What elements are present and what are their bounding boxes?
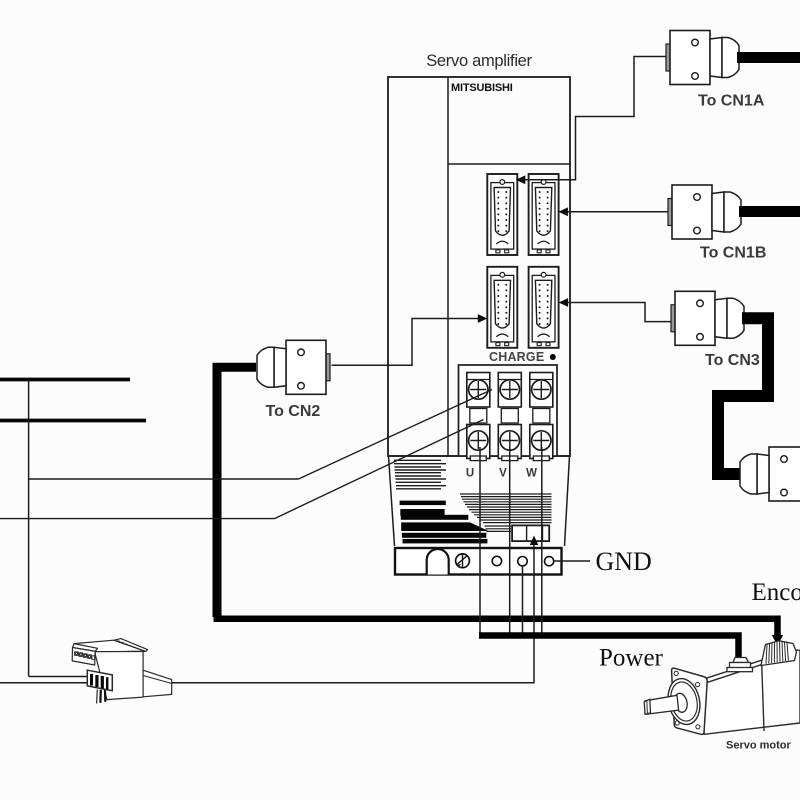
- svg-text:Power: Power: [599, 645, 664, 672]
- heatsink fins right: [460, 494, 552, 531]
- wire to CN2 socket with arrow: [332, 319, 479, 366]
- inner panel divider horizontal: [448, 163, 570, 165]
- plug latch wedge: [143, 670, 172, 697]
- inner panel divider vertical: [447, 77, 449, 456]
- plug pin strip face: [72, 648, 95, 666]
- cable plug To CN1B: [668, 185, 741, 239]
- charge lamp dot: [550, 354, 556, 360]
- supply drop wire: [28, 380, 30, 677]
- flange screw holes: [674, 671, 700, 729]
- motor power entry block: [727, 658, 753, 672]
- motor bearing boss rings: [664, 676, 704, 728]
- motor shaft: [644, 692, 689, 714]
- heatsink top edge lines: [389, 455, 459, 457]
- W phase wire: [541, 447, 543, 636]
- motor encoder connector: [761, 641, 797, 666]
- CN3 cable routed to encoder plug: [718, 318, 768, 474]
- svg-text:V: V: [499, 468, 507, 480]
- pointer diagonal to terminal U bottom: [275, 420, 484, 519]
- plug stub wires: [96, 690, 99, 704]
- mounting flange of amplifier: [395, 548, 562, 575]
- connector CN1A socket on amplifier: [487, 174, 517, 255]
- connector CN3 socket on amplifier: [529, 267, 559, 348]
- svg-text:To CN1A: To CN1A: [698, 93, 765, 110]
- connector CN1B socket on amplifier: [529, 174, 559, 255]
- motor power cable: [479, 636, 739, 660]
- cable plug To CN2 (faces left): [257, 340, 330, 394]
- wire to CN3 socket with arrow: [567, 303, 672, 322]
- motor power cable plug (bottom right, faces left): [740, 447, 800, 501]
- wire to CN1A socket with arrow: [524, 57, 668, 180]
- svg-text:U: U: [466, 468, 474, 480]
- power supply plug (bottom left, 3D): [72, 639, 172, 700]
- mounting notch: [427, 549, 449, 575]
- plug front face: [95, 651, 143, 699]
- ground wire from flange hole: [522, 566, 524, 636]
- connector CN2 socket on amplifier: [487, 267, 517, 348]
- battery/display box on amplifier: [512, 525, 549, 541]
- cable plug To CN3: [671, 291, 744, 345]
- heatsink black bars left: [400, 501, 489, 544]
- CN1A cable: [737, 52, 800, 63]
- thin control wire h2: [0, 518, 275, 520]
- thin control wire h1: [29, 478, 299, 480]
- ground screw symbol: [456, 554, 470, 568]
- wire to CN1B socket with arrow: [567, 211, 668, 213]
- three-phase supply line 2: [0, 419, 146, 423]
- plug pin holes: [75, 652, 95, 660]
- svg-text:CHARGE: CHARGE: [489, 350, 544, 364]
- GND wire: [554, 560, 590, 562]
- svg-text:To CN2: To CN2: [266, 403, 321, 420]
- svg-text:To CN3: To CN3: [705, 352, 760, 369]
- motor flange: [672, 668, 708, 734]
- plug top face: [74, 640, 146, 652]
- terminal block bottom tabs: [470, 456, 549, 461]
- wire into power plug from left edge: [0, 682, 88, 684]
- terminal block TE1: [459, 365, 558, 456]
- flange hole 2: [518, 557, 527, 566]
- servo motor body: [704, 650, 800, 735]
- svg-text:W: W: [526, 468, 537, 480]
- U phase wire: [479, 447, 481, 636]
- svg-text:To CN1B: To CN1B: [700, 245, 766, 262]
- V phase wire: [509, 447, 511, 636]
- amplifier heatsink section outline: [389, 456, 570, 546]
- heatsink fins upper-left: [394, 460, 446, 489]
- encoder cable to motor with arrow: [214, 619, 778, 637]
- three-phase supply line 1: [0, 378, 130, 382]
- svg-text:Servo motor: Servo motor: [726, 740, 792, 752]
- plug pin strip top: [73, 644, 98, 652]
- flange hole 1: [492, 556, 501, 565]
- CN1B cable: [739, 206, 800, 217]
- CN2 cable down and across to motor encoder: [217, 367, 256, 617]
- flange hole 3 (GND): [545, 557, 554, 566]
- pointer diagonal to terminal V: [299, 390, 493, 480]
- plug chamfer edge: [114, 639, 148, 652]
- svg-text:MITSUBISHI: MITSUBISHI: [451, 82, 513, 94]
- svg-text:Servo amplifier: Servo amplifier: [426, 52, 532, 70]
- plug wire slot plate: [87, 670, 112, 691]
- svg-text:GND: GND: [596, 547, 652, 576]
- pointer wire from power plug to battery box: [172, 545, 534, 683]
- svg-text:Encoder: Encoder: [752, 579, 800, 606]
- terminal screws U V W rows: [467, 373, 553, 459]
- servo amplifier outer case: [388, 77, 570, 456]
- wire from supply to power plug: [29, 676, 88, 678]
- cable plug To CN1A: [666, 31, 739, 85]
